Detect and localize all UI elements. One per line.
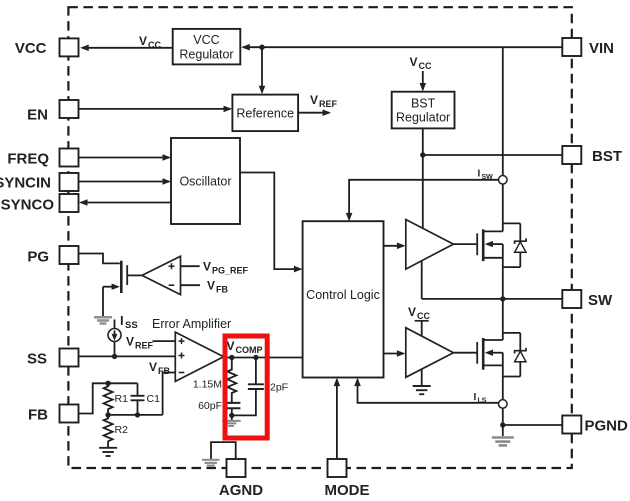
wire SS to error amplifier	[79, 355, 176, 357]
label ILS	[474, 392, 487, 405]
wire low-side driver to ground	[421, 370, 423, 387]
wire EN to Reference	[79, 106, 233, 113]
wire VIN rail branch down	[502, 47, 504, 175]
wire Oscillator output to Control Logic	[240, 173, 302, 273]
block Oscillator	[171, 138, 240, 224]
node SS junction	[112, 354, 117, 359]
block VCC Regulator	[173, 29, 241, 65]
label VREF net	[310, 93, 338, 109]
svg-text:R2: R2	[115, 424, 129, 436]
ground power ground symbol	[492, 438, 514, 446]
node PGND junction	[500, 422, 505, 427]
pin MODE	[325, 459, 370, 499]
wire VCC into BST Regulator	[420, 71, 427, 92]
label VFB comparator	[207, 279, 228, 295]
wire AGND to analog ground	[211, 442, 236, 459]
wire VCOMP output to Control Logic	[224, 357, 303, 359]
wire SW node line	[422, 267, 563, 333]
svg-text:AGND: AGND	[219, 482, 263, 499]
pin FB	[28, 405, 79, 424]
svg-text:I: I	[120, 313, 124, 328]
svg-text:V: V	[203, 260, 211, 274]
svg-text:C1: C1	[147, 393, 161, 405]
svg-text:CC: CC	[419, 61, 432, 71]
svg-text:R1: R1	[115, 393, 129, 405]
svg-text:REF: REF	[135, 341, 154, 351]
wire junction down to Reference	[259, 47, 266, 94]
label VREF error amp input	[126, 335, 154, 351]
svg-text:SW: SW	[588, 292, 613, 309]
ground PG transistor source	[94, 317, 112, 323]
wire ISW feedback to Control Logic top	[346, 180, 499, 222]
wire FB to feedback network	[79, 383, 138, 413]
svg-text:PGND: PGND	[585, 418, 629, 435]
svg-text:PG: PG	[27, 249, 49, 266]
pin SS	[27, 349, 79, 368]
ground compensation network	[222, 415, 241, 426]
node compensation branch 2 tap	[253, 355, 258, 360]
pin SW	[562, 290, 613, 309]
pin BST	[562, 146, 622, 165]
svg-text:Oscillator: Oscillator	[179, 175, 231, 189]
pin VIN	[562, 38, 614, 57]
pin VCC	[15, 38, 79, 57]
svg-text:SYNCIN: SYNCIN	[0, 175, 51, 192]
svg-text:REF: REF	[319, 99, 338, 109]
label VCC above BST Regulator	[410, 55, 432, 71]
transistor Q1 high-side MOSFET	[453, 223, 520, 267]
node compensation branch 1 tap	[229, 355, 234, 360]
wire high-side rail to drain	[502, 184, 504, 223]
op-amp low-side gate driver	[406, 328, 454, 378]
block BST Regulator	[392, 92, 455, 129]
wire VPG_REF input	[181, 265, 200, 267]
wire VCC Regulator output to VCC pin	[80, 45, 173, 52]
svg-text:2pF: 2pF	[270, 382, 288, 394]
wire FREQ to Oscillator	[79, 154, 172, 161]
wire ILS feedback to Control Logic bottom	[354, 378, 498, 403]
wire VFB to error amplifier	[163, 373, 176, 415]
current sense ISW	[499, 176, 508, 185]
svg-text:VCC: VCC	[15, 40, 47, 57]
svg-text:I: I	[474, 392, 477, 403]
label ISW	[478, 169, 494, 182]
svg-text:VIN: VIN	[589, 40, 614, 57]
svg-text:V: V	[410, 55, 418, 69]
svg-text:I: I	[478, 169, 481, 180]
svg-text:V: V	[310, 93, 318, 107]
label ISS	[120, 313, 138, 331]
svg-text:60pF: 60pF	[198, 400, 222, 412]
svg-text:MODE: MODE	[325, 482, 370, 499]
wire Control Logic to low-side driver	[384, 350, 406, 357]
wire SYNCIN to Oscillator	[79, 178, 172, 185]
diode D2 low-side body diode	[515, 333, 526, 377]
svg-text:FB: FB	[158, 366, 170, 376]
svg-text:FREQ: FREQ	[7, 151, 49, 168]
svg-text:COMP: COMP	[236, 345, 263, 355]
wire PGND ground stub	[502, 425, 504, 436]
svg-text:CC: CC	[417, 311, 430, 321]
label VFB error amp input	[149, 360, 170, 376]
svg-text:VCC: VCC	[193, 33, 219, 47]
wire BST Regulator output to BST pin and high-side driver	[423, 128, 563, 228]
block Reference	[232, 95, 298, 132]
wire Control Logic to high-side driver	[384, 243, 406, 250]
transistor Q3 power good open-drain	[103, 261, 142, 316]
wire low-side source down	[502, 377, 504, 400]
svg-text:FB: FB	[216, 285, 228, 295]
svg-text:EN: EN	[27, 107, 48, 124]
ground low-side driver	[413, 386, 431, 394]
label 60pF	[198, 400, 222, 412]
label 2pF	[270, 382, 288, 394]
label VCOMP	[227, 339, 263, 355]
wire VFB input to comparator	[181, 284, 201, 286]
node R1 top junction	[105, 381, 110, 386]
ground analog ground symbol	[202, 460, 220, 466]
svg-text:CC: CC	[148, 40, 161, 50]
wire PG pin to transistor drain	[79, 254, 120, 264]
svg-text:Regulator: Regulator	[396, 111, 450, 125]
wire ILS to PGND	[503, 408, 563, 425]
node compensation ground junction	[229, 413, 234, 418]
svg-text:1.15M: 1.15M	[193, 379, 222, 391]
svg-text:SYNCO: SYNCO	[1, 197, 55, 214]
pin FREQ	[7, 149, 78, 168]
svg-text:V: V	[207, 279, 215, 293]
IC boundary dashed border	[68, 7, 571, 468]
pin AGND	[219, 459, 263, 499]
diode D1 high-side body diode	[515, 223, 526, 267]
block Control Logic	[303, 221, 384, 377]
capacitor 2pF	[232, 358, 264, 416]
op-amp high-side gate driver	[406, 220, 454, 270]
svg-text:Reference: Reference	[236, 107, 294, 121]
pin PG	[27, 246, 78, 266]
wire MODE to Control Logic	[334, 378, 341, 459]
pin SYNCIN	[0, 173, 79, 192]
capacitor C1	[131, 383, 161, 415]
label 1.15M	[193, 379, 222, 391]
current source ISS	[108, 320, 121, 357]
resistor R2	[104, 415, 128, 447]
svg-text:Control Logic: Control Logic	[306, 288, 380, 302]
resistor R1	[104, 383, 128, 415]
node C1 bottom junction	[135, 412, 140, 417]
svg-text:SS: SS	[27, 351, 47, 368]
svg-text:FB: FB	[28, 407, 48, 424]
transistor Q2 low-side MOSFET	[453, 333, 520, 377]
node SW junction	[500, 296, 505, 301]
wire high-side driver return to SW	[421, 261, 423, 299]
op-amp PG comparator	[142, 256, 181, 294]
wire VREF to error amplifier	[153, 340, 176, 342]
svg-text:V: V	[139, 34, 147, 48]
ground R2	[99, 448, 117, 456]
wire feedback bottom node	[108, 414, 163, 416]
svg-text:V: V	[126, 335, 134, 349]
wire Reference VREF output	[298, 109, 331, 116]
current sense ILS	[499, 400, 508, 409]
resistor 1.15M	[227, 358, 236, 403]
label Error Amplifier	[152, 317, 231, 331]
pin EN	[27, 100, 78, 124]
svg-text:Error Amplifier: Error Amplifier	[152, 317, 231, 331]
svg-text:V: V	[408, 305, 416, 319]
svg-text:SS: SS	[125, 320, 138, 331]
node junction on VIN rail	[259, 45, 264, 50]
label VCC supply for low-side driver	[408, 305, 430, 337]
svg-text:V: V	[227, 339, 235, 353]
label VCC net	[139, 34, 161, 50]
node BST junction	[420, 152, 425, 157]
node R2 top junction	[105, 412, 110, 417]
svg-text:PG_REF: PG_REF	[212, 266, 249, 276]
pin PGND	[562, 416, 628, 435]
highlight red box around compensation network	[225, 336, 267, 438]
label VPG_REF	[203, 260, 249, 276]
svg-text:BST: BST	[411, 97, 436, 111]
wire VIN rail to VCC Regulator	[241, 44, 562, 51]
svg-text:BST: BST	[592, 148, 622, 165]
op-amp U1 error amplifier	[175, 332, 223, 381]
svg-text:Regulator: Regulator	[179, 48, 233, 62]
pin SYNCO	[1, 194, 79, 214]
svg-text:V: V	[149, 360, 157, 374]
capacitor 60pF	[223, 403, 241, 416]
wire Oscillator to SYNCO	[79, 199, 171, 206]
